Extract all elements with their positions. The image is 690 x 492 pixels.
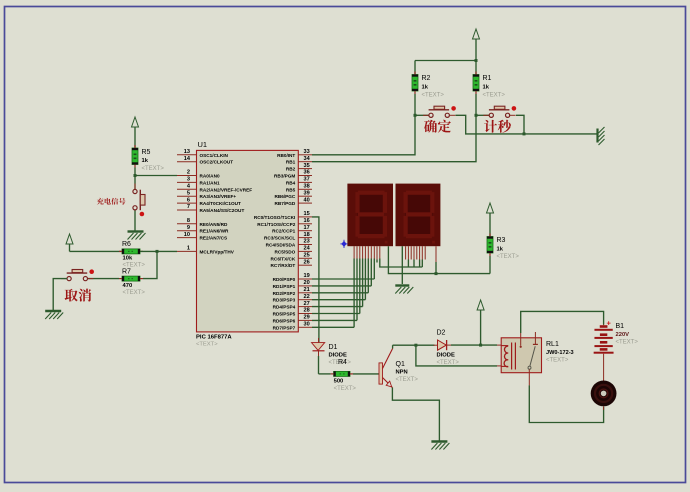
svg-text:PIC 16F877A: PIC 16F877A (196, 334, 232, 340)
svg-text:RD5/PSP5: RD5/PSP5 (273, 312, 296, 317)
svg-text:RE2/AN7/CS: RE2/AN7/CS (200, 236, 228, 241)
label 确定 (424, 120, 437, 133)
pin 34 (RB1) (298, 161, 312, 163)
relay RL1 (501, 338, 541, 373)
svg-text:RD0/PSP0: RD0/PSP0 (273, 277, 296, 282)
resistor R7 (122, 276, 140, 281)
svg-text:JW0-172-3: JW0-172-3 (546, 350, 574, 356)
svg-text:29: 29 (304, 315, 310, 321)
resistor R2 (412, 75, 418, 92)
svg-text:R3: R3 (497, 237, 506, 244)
wire button to ground (134, 211, 136, 231)
svg-text:7: 7 (187, 204, 190, 210)
svg-text:10k: 10k (123, 256, 133, 262)
pin 37 (RB4) (298, 181, 312, 183)
pin 33 (RB0/INT) (298, 154, 312, 156)
svg-text:RE0/AN5/RD: RE0/AN5/RD (200, 222, 228, 227)
svg-text:<TEXT>: <TEXT> (142, 166, 165, 172)
svg-text:R5: R5 (142, 149, 151, 156)
wire R3 bottom to H2 bus (489, 256, 491, 274)
svg-text:<TEXT>: <TEXT> (123, 290, 146, 296)
svg-text:8: 8 (187, 218, 190, 224)
display DS2 segment pin stubs (405, 246, 407, 259)
svg-text:19: 19 (304, 273, 310, 279)
svg-text:RC5/SDO: RC5/SDO (274, 249, 295, 254)
pushbutton 取消 (61, 278, 67, 280)
wire DS2 pins to H1 bus (407, 260, 409, 268)
svg-text:RC7/RX/DT: RC7/RX/DT (271, 263, 296, 268)
resistor R5 (132, 148, 138, 165)
pin 13 (OSC1/CLKIN) (177, 154, 197, 156)
pin 1 (MCLR/Vpp/THV) (177, 250, 197, 252)
display DS1 extra pin stub (376, 246, 378, 259)
svg-text:+: + (607, 319, 612, 328)
svg-text:<TEXT>: <TEXT> (546, 358, 569, 364)
svg-text:RB2: RB2 (286, 167, 296, 172)
svg-text:R2: R2 (422, 75, 431, 82)
wire R2 top branch (415, 60, 476, 62)
7-segment display DS1 (347, 184, 393, 247)
pin 28 (RD5/PSP5) (298, 313, 312, 315)
wire D2 cathode to coil top pin (451, 344, 497, 346)
wire R6 to MCLR pin1 (140, 250, 177, 252)
svg-text:20: 20 (304, 280, 310, 286)
junction R5 / RA0 wire (134, 174, 137, 177)
svg-text:9: 9 (187, 225, 190, 231)
pin 30 (RD7/PSP7) (298, 326, 312, 328)
label 取消 (65, 289, 78, 302)
wire node R1/jimiao to RB1 (312, 115, 476, 161)
svg-text:RC0/T1OSO/T1CKI: RC0/T1OSO/T1CKI (254, 215, 295, 220)
junction D2 anode / coil bottom branch (414, 344, 417, 347)
svg-text:27: 27 (304, 301, 310, 307)
svg-text:RC4/SDI/SDA: RC4/SDI/SDA (266, 243, 296, 248)
diode D2 (438, 340, 447, 350)
svg-text:6: 6 (187, 197, 190, 203)
svg-text:RA3/AN3/VREF+: RA3/AN3/VREF+ (200, 194, 237, 199)
wire button to ground (53, 279, 67, 310)
pin 38 (RB5) (298, 188, 312, 190)
wire D1 to R4 (318, 356, 320, 374)
resistor R1 (473, 75, 479, 92)
wire power arrow to R1 top (475, 42, 477, 75)
wire 确定 right to ground bus (456, 115, 598, 134)
svg-text:RA2/AN2/VREF-/CVREF: RA2/AN2/VREF-/CVREF (200, 187, 253, 192)
junction R2 top branch / +V wire (475, 59, 478, 62)
svg-text:15: 15 (304, 211, 310, 217)
wire arrow to coil node (480, 313, 482, 345)
wire Q1 emitter to ground (392, 388, 439, 441)
wire R1 bottom to button (475, 94, 477, 115)
svg-text:RB3/PGM: RB3/PGM (274, 174, 295, 179)
svg-text:D2: D2 (437, 330, 446, 337)
svg-text:B1: B1 (616, 323, 625, 330)
microcontroller U1 PIC16F877A body (197, 150, 299, 332)
pin 24 (RC5/SDO) (298, 250, 312, 252)
pushbutton 计秒 (483, 114, 489, 116)
wire R4 to Q1 base (353, 373, 379, 375)
pin 14 (OSC2/CLKOUT) (177, 161, 197, 163)
svg-text:RB7/PGD: RB7/PGD (274, 201, 295, 206)
svg-text:16: 16 (304, 218, 310, 224)
wire coil bottom pin / D2 anode bypass (416, 345, 497, 366)
svg-text:RD3/PSP3: RD3/PSP3 (273, 298, 296, 303)
svg-text:NPN: NPN (396, 370, 408, 376)
pushbutton 充电信号 (vertical) (134, 184, 136, 190)
pin 8 (RE0/AN5/RD) (177, 223, 197, 225)
svg-text:RB4: RB4 (286, 180, 296, 185)
resistor R3 (487, 237, 493, 254)
svg-text:17: 17 (304, 225, 310, 231)
pushbutton 确定 (423, 114, 429, 116)
junction R1/button/RB1 node (475, 114, 478, 117)
svg-text:33: 33 (304, 149, 310, 155)
pin 19 (RD0/PSP0) (298, 278, 312, 280)
pin 18 (RC3/SCK/SCL) (298, 237, 312, 239)
power +V arrow (R6) (66, 234, 73, 244)
svg-text:R1: R1 (483, 75, 492, 82)
battery B1 (600, 325, 608, 328)
ground (below displays) (395, 284, 409, 286)
svg-text:36: 36 (304, 170, 310, 176)
svg-text:35: 35 (304, 163, 310, 169)
svg-text:21: 21 (304, 287, 310, 293)
motor M1 (591, 381, 617, 407)
wire arrow to R3 (489, 216, 491, 237)
pin 20 (RD1/PSP1) (298, 285, 312, 287)
wire arrow to R6 (69, 247, 71, 251)
svg-text:<TEXT>: <TEXT> (437, 360, 460, 366)
wire Q1 collector up to D2 row (392, 345, 394, 348)
wire relay common to battery top (521, 311, 604, 333)
svg-text:RC3/SCK/SCL: RC3/SCK/SCL (264, 236, 295, 241)
svg-text:1k: 1k (497, 247, 504, 253)
ground (Q1 emitter) (431, 440, 447, 442)
display DS1 segment pin stubs (353, 246, 355, 258)
wire DS1 pin10 (common) to H2 bus (388, 246, 490, 273)
svg-text:37: 37 (304, 177, 310, 183)
wire junction down to R7 (143, 251, 157, 278)
diode D1 (312, 343, 325, 351)
svg-text:5: 5 (187, 190, 190, 196)
svg-text:R6: R6 (122, 241, 131, 248)
pin 39 (RB6/PGC) (298, 195, 312, 197)
svg-text:RA0/AN0: RA0/AN0 (200, 174, 220, 179)
wire arrow to R5 (134, 130, 136, 148)
svg-text:Q1: Q1 (396, 361, 405, 368)
svg-text:<TEXT>: <TEXT> (422, 93, 445, 99)
svg-text:10: 10 (184, 232, 190, 238)
svg-text:2: 2 (187, 170, 190, 176)
wire R2 bottom to button (414, 94, 416, 115)
svg-text:1k: 1k (142, 158, 149, 164)
svg-text:1k: 1k (483, 85, 490, 91)
svg-text:RB6/PGC: RB6/PGC (274, 194, 295, 199)
svg-text:RA1/AN1: RA1/AN1 (200, 180, 220, 185)
svg-text:OSC2/CLKOUT: OSC2/CLKOUT (200, 160, 234, 165)
svg-text:<TEXT>: <TEXT> (497, 254, 520, 260)
pin 27 (RD4/PSP4) (298, 306, 312, 308)
pin 36 (RB3/PGM) (298, 175, 312, 177)
pin 7 (RA5/AN4/SS/C2OUT) (177, 209, 197, 211)
pin 5 (RA3/AN3/VREF+) (177, 195, 197, 197)
pin 3 (RA1/AN1) (177, 181, 197, 183)
pin 2 (RA0/AN0) (177, 175, 197, 177)
svg-text:470: 470 (123, 283, 133, 289)
ground (below charge button) (128, 230, 144, 232)
svg-text:RA5/AN4/SS/C2OUT: RA5/AN4/SS/C2OUT (200, 208, 245, 213)
wire staircase DS1 to RD0-RD7 (353, 259, 355, 328)
pin 29 (RD6/PSP6) (298, 319, 312, 321)
transistor Q1 (379, 363, 383, 384)
svg-text:<TEXT>: <TEXT> (334, 386, 357, 392)
svg-text:13: 13 (184, 149, 190, 155)
svg-text:28: 28 (304, 308, 310, 314)
svg-text:22: 22 (304, 294, 310, 300)
svg-text:DIODE: DIODE (437, 353, 455, 359)
pin 17 (RC2/CCP1) (298, 230, 312, 232)
wire R7 to cancel button (88, 278, 119, 280)
svg-text:RC1/T1OSI/CCP2: RC1/T1OSI/CCP2 (257, 222, 295, 227)
svg-text:RD1/PSP1: RD1/PSP1 (273, 284, 296, 289)
svg-text:U1: U1 (198, 140, 208, 149)
svg-text:RB5: RB5 (286, 187, 296, 192)
wire battery to motor (603, 360, 605, 381)
junction R6 wire / R7 branch (156, 250, 159, 253)
pin 23 (RC4/SDI/SDA) (298, 244, 312, 246)
svg-text:<TEXT>: <TEXT> (196, 341, 218, 347)
svg-text:24: 24 (304, 246, 311, 252)
wire RC0 pin15 down to D1 (312, 217, 319, 342)
svg-text:500: 500 (334, 379, 344, 385)
label 计秒 (484, 120, 497, 133)
svg-text:MCLR/Vpp/THV: MCLR/Vpp/THV (200, 249, 235, 254)
wire R5 to RA0 and button (134, 168, 136, 190)
svg-text:RB0/INT: RB0/INT (277, 153, 295, 158)
junction +V / coil top wire (479, 344, 482, 347)
pin 40 (RB7/PGD) (298, 202, 312, 204)
svg-text:RA4/T0CKI/C1OUT: RA4/T0CKI/C1OUT (200, 201, 242, 206)
ground (bottom left) (45, 310, 61, 312)
svg-text:RC2/CCP1: RC2/CCP1 (272, 229, 296, 234)
pin 22 (RD3/PSP3) (298, 299, 312, 301)
svg-text:39: 39 (304, 190, 310, 196)
pin 15 (RC0/T1OSO/T1CKI) (298, 216, 312, 218)
svg-text:34: 34 (304, 156, 311, 162)
junction R2/button node (414, 114, 417, 117)
svg-text:OSC1/CLKIN: OSC1/CLKIN (200, 153, 229, 158)
junction ground bus / 计秒 drop (523, 132, 526, 135)
svg-text:23: 23 (304, 239, 310, 245)
svg-text:RL1: RL1 (546, 341, 559, 348)
svg-text:DIODE: DIODE (329, 353, 347, 359)
pin 26 (RC7/RX/DT) (298, 264, 312, 266)
resistor R4 (334, 371, 350, 376)
power +V arrow (R3) (487, 203, 494, 213)
svg-text:RD4/PSP4: RD4/PSP4 (273, 305, 296, 310)
svg-text:<TEXT>: <TEXT> (616, 340, 639, 346)
svg-text:RB1: RB1 (286, 160, 296, 165)
node marker (blue origin cross) (341, 241, 346, 247)
wire DS1 pin9 to H1 bus (379, 246, 381, 258)
svg-text:26: 26 (304, 259, 310, 265)
svg-text:<TEXT>: <TEXT> (483, 93, 506, 99)
svg-text:3: 3 (187, 177, 190, 183)
svg-text:RD6/PSP6: RD6/PSP6 (273, 318, 296, 323)
pin 9 (RE1/AN6/WR) (177, 230, 197, 232)
pin 35 (RB2) (298, 168, 312, 170)
svg-text:RD2/PSP2: RD2/PSP2 (273, 291, 296, 296)
wire DS2 right pin to H2 bus (435, 246, 437, 262)
svg-text:220V: 220V (616, 332, 630, 338)
svg-text:R7: R7 (122, 269, 131, 276)
svg-text:1: 1 (187, 246, 190, 252)
svg-text:<TEXT>: <TEXT> (396, 377, 419, 383)
svg-text:40: 40 (304, 197, 310, 203)
wire node R2/queding to RB0 (312, 115, 415, 155)
pin 21 (RD2/PSP2) (298, 292, 312, 294)
junction DS2 right pin / H2 bus (435, 272, 438, 275)
svg-text:38: 38 (304, 184, 310, 190)
power +V arrow (top, feeds R1/R2) (473, 29, 480, 39)
svg-text:18: 18 (304, 232, 310, 238)
svg-text:25: 25 (304, 253, 310, 259)
7-segment display DS2 (396, 184, 441, 247)
svg-text:14: 14 (184, 156, 191, 162)
wire 计秒 right drop to ground bus (516, 115, 524, 134)
svg-text:1k: 1k (422, 85, 429, 91)
svg-text:30: 30 (304, 322, 310, 328)
wire DS2 pin1 to ground (401, 246, 403, 284)
pin 6 (RA4/T0CKI/C1OUT) (177, 202, 197, 204)
svg-text:D1: D1 (329, 344, 338, 351)
power +V arrow (relay coil) (477, 300, 484, 310)
svg-text:R4: R4 (338, 359, 347, 366)
power +V arrow (R5) (132, 117, 139, 127)
pin 16 (RC1/T1OSI/CCP2) (298, 223, 312, 225)
pin 4 (RA2/AN2/VREF-/CVREF) (177, 188, 197, 190)
ground (right of buttons) (596, 129, 598, 143)
resistor R6 (122, 249, 140, 254)
svg-text:RD7/PSP7: RD7/PSP7 (273, 325, 296, 330)
label 充电信号 (97, 198, 104, 205)
wire relay NO contact to motor bottom (528, 373, 530, 386)
pin 10 (RE2/AN7/CS) (177, 237, 197, 239)
pin 25 (RC6/TX/CK) (298, 257, 312, 259)
svg-text:RC6/TX/CK: RC6/TX/CK (271, 256, 296, 261)
svg-text:RE1/AN6/WR: RE1/AN6/WR (200, 229, 230, 234)
